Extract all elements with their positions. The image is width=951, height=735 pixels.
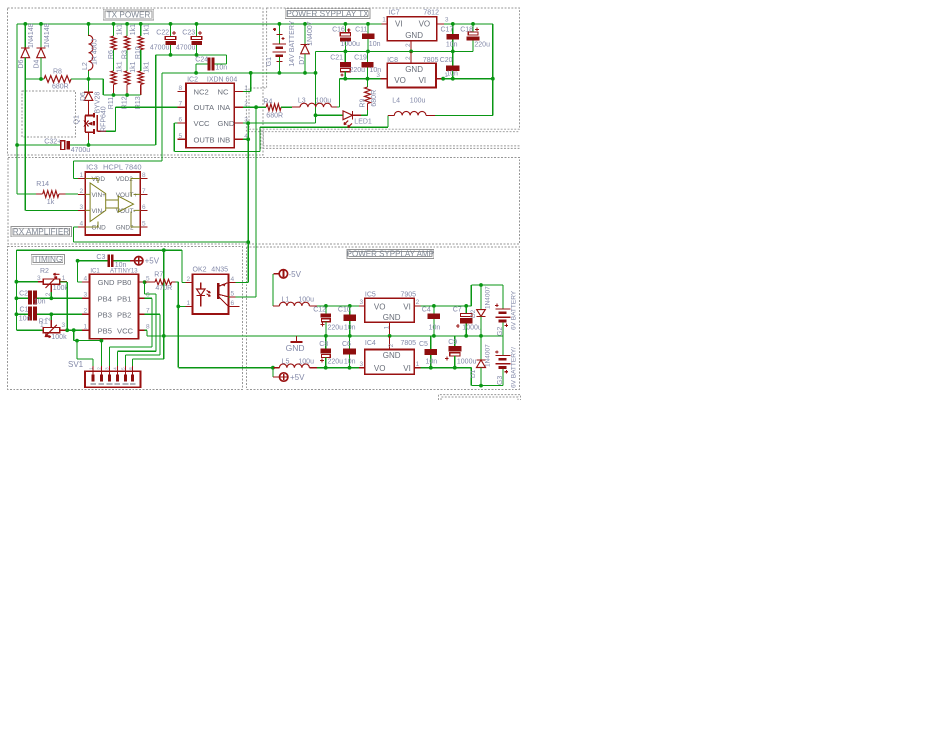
svg-text:C6: C6 [342, 341, 351, 348]
svg-text:1: 1 [416, 361, 420, 368]
svg-text:IC2: IC2 [187, 77, 198, 84]
svg-text:1k1: 1k1 [117, 61, 124, 72]
frame POWER SYPPLAY TX region [249, 8, 520, 129]
svg-text:1N4007: 1N4007 [484, 286, 491, 309]
svg-text:1k1: 1k1 [144, 24, 151, 35]
wire +14V top bus [17, 23, 382, 25]
OK2 pin 5 [229, 296, 236, 298]
svg-text:PB0: PB0 [117, 278, 131, 287]
svg-text:C9: C9 [448, 339, 457, 346]
SV1 pin 6 [132, 366, 134, 377]
resistor R8 680R [25, 78, 44, 80]
svg-text:10n: 10n [426, 358, 438, 365]
svg-text:2: 2 [45, 292, 52, 296]
inductor L2 1R 400J [88, 24, 90, 35]
svg-text:INB: INB [218, 135, 231, 144]
svg-text:5: 5 [179, 133, 183, 140]
wire +5V vertical to SV1 pin6 [133, 358, 164, 360]
wire IC2 GND pin3 line [243, 122, 316, 124]
supply +5V symbol amp [272, 368, 274, 377]
diode D6b BYV28 [88, 79, 90, 92]
svg-text:R9: R9 [360, 99, 367, 108]
wire IC7 VO to IC8 VI [444, 23, 493, 25]
SV1 pin 5 [125, 366, 127, 377]
wire amp gnd rail junctions [324, 334, 328, 338]
inductor L5 100u [274, 367, 280, 369]
svg-text:1: 1 [383, 325, 390, 329]
svg-text:1000u: 1000u [462, 324, 482, 331]
svg-text:C19: C19 [354, 55, 367, 62]
svg-text:PB1: PB1 [117, 294, 131, 303]
title POWER SYPPLAY AMP [347, 250, 434, 259]
svg-text:1: 1 [187, 300, 191, 307]
svg-text:C4: C4 [422, 307, 431, 314]
wire IC2 INA pin2 to R4 [243, 106, 262, 108]
svg-text:5: 5 [142, 221, 146, 228]
battery G1 14V [278, 24, 280, 44]
svg-text:4: 4 [84, 275, 88, 282]
svg-text:C21: C21 [330, 55, 343, 62]
wire IC1 VCC pin8 to gnd-line [145, 329, 148, 331]
wire C22/C23 bottoms [156, 54, 227, 56]
wire GND up-jog at x315 to LED line [315, 51, 317, 123]
svg-text:1N4148: 1N4148 [44, 23, 51, 48]
svg-text:C24: C24 [195, 57, 208, 64]
svg-text:10n: 10n [446, 42, 458, 49]
svg-text:C11: C11 [355, 27, 367, 34]
svg-text:100u: 100u [298, 358, 314, 365]
IC2 pin 6 VCC / pin 3 GND [177, 122, 186, 124]
IC8 pin 2 GND [410, 51, 412, 63]
svg-text:POWER SYPPLAY TX: POWER SYPPLAY TX [286, 9, 369, 18]
svg-text:10n: 10n [216, 65, 228, 72]
svg-text:8: 8 [179, 85, 183, 92]
wire IC2 NC pin1 to node [243, 90, 251, 92]
svg-text:10n: 10n [19, 315, 31, 322]
SV1 pin 3 [109, 366, 111, 377]
svg-text:IC7: IC7 [389, 10, 400, 17]
wire PB5 net to SV1 pins 1-2 [73, 330, 75, 340]
svg-text:PB3: PB3 [98, 310, 112, 319]
capacitor C5 10n [430, 336, 432, 349]
IC regulator IC7 7812 [387, 17, 437, 41]
capacitor C21 220u [344, 51, 346, 62]
capacitor C16 1000u [344, 24, 346, 33]
IC4 pin 1 VI [414, 367, 420, 369]
svg-text:C2: C2 [19, 290, 28, 297]
junction bus-C23 [195, 22, 199, 26]
wire gnd to IC1 pin4 [78, 281, 83, 283]
transistor Q1 RFP640 [88, 105, 90, 116]
resistor R14 1k [17, 193, 36, 195]
IC3 pin 2 VIN+ / pin 7 VOUT+ [78, 193, 85, 195]
resistor R4 680R [243, 106, 266, 108]
svg-text:OK2: OK2 [193, 266, 207, 273]
wire left rail down from bus [16, 24, 18, 194]
svg-text:1: 1 [84, 324, 88, 331]
resistor R7 470R [143, 280, 147, 284]
svg-text:GND: GND [218, 119, 235, 128]
svg-text:IXDN 604: IXDN 604 [207, 77, 237, 84]
wire IC1 pin5 route to SV1 pin4 [144, 282, 146, 294]
capacitor C23 4700u [196, 24, 198, 37]
svg-text:2: 2 [84, 308, 88, 315]
svg-text:L1: L1 [282, 297, 290, 304]
svg-text:4: 4 [80, 221, 84, 228]
svg-text:3: 3 [80, 204, 84, 211]
OK2 pin 1 [186, 305, 193, 307]
OK2 internal LED [200, 282, 202, 289]
svg-text:14V BATTERY: 14V BATTERY [289, 20, 296, 66]
wire timing gnd rail top [16, 249, 182, 251]
svg-text:R4: R4 [263, 99, 272, 106]
svg-text:ATTINY13: ATTINY13 [110, 268, 138, 274]
svg-text:VI: VI [403, 364, 411, 373]
junction bus-R6 [112, 22, 116, 26]
svg-text:C10: C10 [338, 307, 351, 314]
svg-text:6: 6 [146, 292, 150, 299]
svg-text:IC5: IC5 [365, 291, 376, 298]
svg-text:D1: D1 [470, 369, 477, 378]
svg-text:VCC: VCC [194, 119, 211, 128]
diode D7 1N4007 [304, 24, 306, 44]
resistor R12 1k1 [124, 71, 129, 85]
wire 5V rail left of IC8 [340, 78, 381, 80]
junction G1 bottom [278, 71, 282, 75]
inductor L3 100u [292, 106, 300, 108]
svg-text:2: 2 [45, 317, 52, 321]
svg-text:IC4: IC4 [365, 340, 376, 347]
capacitor C7 1000u [465, 306, 467, 314]
capacitor C12 220u [324, 304, 328, 308]
wire OUTA line to IC2 pin 7 [115, 106, 177, 108]
svg-text:100u: 100u [298, 297, 314, 304]
frame POWER SYPPLAY AMP region [246, 247, 519, 390]
resistor R11 1k1 [111, 71, 116, 85]
svg-text:INA: INA [218, 103, 232, 112]
svg-text:5: 5 [146, 275, 150, 282]
svg-text:1000u: 1000u [340, 41, 360, 48]
wire Q1 gate to OUTA [106, 130, 115, 132]
wire long vertical INA to OK2 pin5 [255, 107, 257, 297]
IC4 pin 3 VO [359, 367, 365, 369]
svg-text:RX AMPLIFIER: RX AMPLIFIER [13, 227, 70, 236]
svg-text:1R 400J: 1R 400J [92, 39, 99, 65]
OK2 internal phototransistor [217, 283, 220, 299]
optocoupler OK2 4N35 [193, 274, 229, 314]
junction left rail at C32 line [15, 143, 19, 147]
capacitor C9 1000u [454, 336, 456, 346]
svg-text:4: 4 [231, 276, 235, 283]
capacitor C17 10n [452, 24, 454, 34]
svg-text:PB4: PB4 [98, 294, 112, 303]
svg-text:1N4007: 1N4007 [484, 344, 491, 367]
resistor R13 1k1 [138, 71, 143, 85]
IC3 pin 3 VIN- / pin 6 VOUT- [78, 209, 85, 211]
IC2 pin 5 OUTB / pin 4 INB [177, 138, 186, 140]
junction gnd line with long vertical [246, 240, 250, 244]
battery G2 6V [502, 285, 504, 309]
wire IC3 GND pin4 to gnd vertical [74, 226, 78, 228]
svg-text:VI: VI [403, 303, 411, 312]
svg-text:1k1: 1k1 [130, 24, 137, 35]
svg-text:6: 6 [142, 204, 146, 211]
IC4 pin 2 GND [389, 336, 391, 350]
svg-text:1: 1 [62, 275, 66, 282]
svg-text:3: 3 [360, 361, 364, 368]
wire node down to IC3 VDD [161, 73, 163, 161]
svg-text:TX POWER: TX POWER [107, 11, 151, 20]
capacitor C6 10n [348, 366, 352, 370]
wire C23 net corner to C24 right [226, 55, 228, 64]
svg-text:10n: 10n [344, 325, 356, 332]
junction L2-R8-D6b node [87, 77, 91, 81]
svg-text:220u: 220u [474, 42, 490, 49]
IC2 pin 7 OUTA / pin 2 INA [177, 106, 186, 108]
svg-text:220u: 220u [328, 325, 344, 332]
LED LED1 [316, 114, 344, 116]
svg-text:1: 1 [382, 17, 386, 24]
svg-text:100k: 100k [53, 285, 69, 292]
svg-text:C17: C17 [441, 27, 454, 34]
svg-text:IC1: IC1 [90, 268, 100, 274]
svg-text:L5: L5 [282, 358, 290, 365]
svg-text:1: 1 [40, 322, 44, 329]
SV1 pin 4 [116, 366, 118, 377]
IC1 pin 4 GND / pin 5 PB0 [82, 281, 89, 283]
diode D1 1N4007 [480, 336, 482, 360]
wire +5V rail into AMP with L5 [178, 367, 273, 369]
capacitor C11 10n [367, 24, 369, 34]
svg-text:R8: R8 [53, 69, 62, 76]
wire GND mid rail [316, 50, 474, 52]
svg-text:2: 2 [405, 56, 412, 60]
svg-text:R6: R6 [108, 50, 115, 59]
svg-text:TIMING: TIMING [34, 255, 63, 264]
wire rail to OK2 pin2 [181, 250, 183, 282]
svg-text:OUTA: OUTA [194, 103, 215, 112]
capacitor C18 220u [472, 24, 474, 32]
svg-text:G2: G2 [497, 327, 504, 336]
svg-text:L3: L3 [298, 98, 306, 105]
svg-text:R3: R3 [122, 50, 129, 59]
SV1 pin 2 [100, 366, 102, 377]
svg-text:GND: GND [383, 351, 401, 360]
svg-text:680R: 680R [266, 112, 283, 119]
svg-text:D6: D6 [18, 59, 25, 68]
svg-text:LED1: LED1 [354, 118, 372, 125]
svg-text:C3: C3 [96, 254, 105, 261]
svg-text:4700u: 4700u [71, 147, 91, 154]
inductor L1 100u [273, 305, 280, 307]
svg-text:C8: C8 [319, 341, 328, 348]
title TX POWER [103, 9, 154, 20]
svg-text:R11: R11 [108, 97, 115, 109]
IC8 pin 3 VO [381, 78, 388, 80]
svg-text:3: 3 [376, 72, 380, 79]
svg-text:C18: C18 [460, 27, 473, 34]
IC micro IC1 ATTINY13 [90, 274, 139, 338]
svg-text:+5V: +5V [145, 257, 160, 266]
svg-text:D2: D2 [470, 309, 477, 318]
svg-text:VIN-: VIN- [92, 208, 105, 215]
capacitor C19 10n [367, 51, 369, 62]
capacitor C10 10n [348, 304, 352, 308]
wire VI up to battery G2 row [470, 285, 472, 306]
capacitor C1 10n [16, 313, 28, 315]
OK2 pin 4 [229, 281, 236, 283]
junction bus-L2 [87, 22, 91, 26]
wire IC1 pin6 route to SV1 pin3 [145, 297, 153, 299]
svg-text:10n: 10n [344, 358, 356, 365]
svg-text:100k: 100k [51, 334, 67, 341]
trimmer R2 100k [16, 281, 38, 283]
svg-text:2: 2 [187, 276, 191, 283]
svg-text:GND: GND [405, 31, 423, 40]
svg-text:C16: C16 [332, 27, 345, 34]
svg-text:2: 2 [416, 299, 420, 306]
svg-text:VI: VI [419, 76, 427, 85]
svg-text:1k1: 1k1 [144, 61, 151, 72]
capacitor C22 4700u [170, 24, 172, 37]
OK2 pin 6 [229, 305, 240, 307]
svg-text:680R: 680R [371, 90, 378, 107]
svg-text:7905: 7905 [401, 291, 417, 298]
capacitor C4 10n [433, 306, 435, 314]
IC5 pin 3 VO [359, 305, 365, 307]
capacitor C8 220u [324, 366, 328, 370]
capacitor C2 10n [16, 297, 28, 299]
wire long gnd line into AMP frame [147, 335, 503, 337]
wire R7 to OK2 pin1 and +5 rail [177, 282, 179, 368]
IC7 pin 2 GND [410, 41, 412, 52]
svg-text:VO: VO [374, 303, 386, 312]
svg-text:7: 7 [142, 188, 146, 195]
svg-text:L4: L4 [392, 98, 400, 105]
wire R2-R1 right link [66, 282, 68, 330]
svg-text:R7: R7 [154, 272, 163, 279]
svg-text:C1: C1 [20, 307, 29, 314]
svg-text:GND: GND [405, 65, 423, 74]
svg-text:Q1: Q1 [74, 115, 81, 124]
svg-text:7812: 7812 [423, 10, 439, 17]
svg-text:2: 2 [405, 43, 412, 47]
svg-text:VIN+: VIN+ [92, 192, 107, 199]
IC1 pin 3 PB4 / pin 6 PB1 [82, 297, 89, 299]
svg-text:GND: GND [383, 313, 401, 322]
wire OK2 pin4 green into AMP [236, 281, 249, 283]
svg-text:7805: 7805 [401, 340, 417, 347]
svg-text:-5V: -5V [289, 270, 302, 279]
svg-text:C7: C7 [453, 307, 462, 314]
svg-text:RFP640: RFP640 [101, 106, 108, 132]
wire Q1 source to ground rail [88, 140, 90, 145]
svg-text:VCC: VCC [117, 326, 134, 335]
wire node to resistor bottoms [89, 78, 104, 80]
wire long vertical IC2-GND to OK2 pin4 [247, 123, 249, 282]
svg-text:1N4148: 1N4148 [28, 23, 35, 48]
svg-text:C5: C5 [419, 341, 428, 348]
svg-text:220u: 220u [350, 67, 366, 74]
svg-text:1k1: 1k1 [117, 24, 124, 35]
wire IC2 INB pin4 tie [243, 138, 248, 140]
svg-text:L2: L2 [82, 62, 89, 70]
svg-text:G1: G1 [266, 57, 273, 66]
wire IC1 pin7 route to SV1 pin5 [145, 313, 161, 315]
svg-text:SV1: SV1 [68, 360, 84, 369]
svg-text:3: 3 [84, 292, 88, 299]
svg-text:NC: NC [218, 87, 229, 96]
diode D2 1N4007 [480, 285, 482, 309]
ground symbol GND [296, 336, 298, 342]
svg-text:2: 2 [80, 188, 84, 195]
svg-text:VOUT+: VOUT+ [116, 192, 138, 199]
IC2 pin 8 NC2 / pin 1 NC [177, 90, 186, 92]
title TIMING [31, 254, 64, 264]
title RX AMPLIFIER [11, 226, 71, 236]
svg-text:OUTB: OUTB [194, 135, 215, 144]
svg-text:3: 3 [445, 17, 449, 24]
svg-text:1: 1 [80, 172, 84, 179]
svg-text:7: 7 [146, 308, 150, 315]
wire IC4 VI line [420, 367, 471, 369]
svg-text:C23: C23 [182, 30, 195, 37]
svg-text:1k1: 1k1 [130, 61, 137, 72]
svg-text:R2: R2 [40, 268, 49, 275]
wire common node line y73 [162, 72, 315, 74]
svg-text:1N4007: 1N4007 [307, 21, 314, 46]
wire resistor bottoms [103, 94, 140, 96]
svg-text:C20: C20 [440, 57, 453, 64]
svg-text:220u: 220u [328, 358, 344, 365]
svg-text:D7: D7 [299, 56, 306, 65]
frame RX AMPLIFIER region [8, 157, 520, 243]
junction D4 bottom [39, 77, 43, 81]
IC regulator IC4 7805 [365, 350, 414, 375]
svg-text:C12: C12 [313, 307, 326, 314]
diode D6 1N4148 [24, 24, 26, 47]
frame partial bottom region [439, 395, 521, 400]
svg-text:G3: G3 [497, 376, 504, 385]
svg-text:PB5: PB5 [98, 326, 112, 335]
OK2 pin 2 [186, 281, 193, 283]
trimmer R1 100k [16, 329, 43, 331]
svg-text:1k: 1k [47, 199, 55, 206]
capacitor C24 10n [196, 63, 208, 65]
capacitor C20 10n [452, 51, 454, 65]
svg-text:100u: 100u [410, 98, 426, 105]
IC3 pin 1 VDD / pin 8 VDD2 [78, 178, 85, 180]
inductor L4 100u [387, 115, 389, 127]
svg-text:3: 3 [37, 275, 41, 282]
svg-text:4700u: 4700u [150, 45, 170, 52]
svg-text:10n: 10n [34, 298, 46, 305]
IC3 internal isolation amp symbol [90, 183, 106, 222]
svg-text:C22: C22 [156, 30, 169, 37]
svg-text:5: 5 [231, 291, 235, 298]
svg-text:6: 6 [231, 300, 235, 307]
IC regulator IC5 7905 [365, 298, 414, 322]
svg-text:VI: VI [395, 20, 403, 29]
capacitor C32 4700u [17, 144, 61, 146]
svg-text:3: 3 [360, 299, 364, 306]
svg-text:VO: VO [374, 364, 386, 373]
IC7 pin 1 VI [382, 23, 387, 25]
svg-text:R14: R14 [36, 181, 49, 188]
svg-text:IC3: IC3 [86, 163, 98, 172]
wire OK2 pin5 green [229, 296, 230, 298]
junction bus-D6 [23, 22, 27, 26]
